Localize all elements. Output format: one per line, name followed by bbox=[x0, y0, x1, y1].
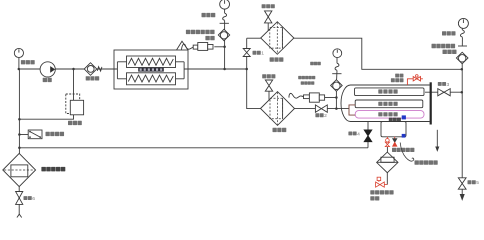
node junction bbox=[223, 68, 226, 71]
wire outlet sensor column upper bbox=[461, 28, 463, 30]
suction filter F1 吸油过滤器 bbox=[3, 153, 36, 186]
label 收集器 2 bbox=[273, 128, 287, 132]
label 球阀2 bbox=[315, 113, 327, 119]
collector 2 收集器 bbox=[261, 92, 295, 126]
heater label selected (dark highlight) bbox=[138, 68, 164, 72]
label 压力表 bbox=[202, 13, 216, 17]
wire sump drain to separator bbox=[386, 147, 388, 152]
leader curve to interface meter label bbox=[400, 143, 414, 162]
air vent valve 排气阀 (collector 1) bbox=[265, 11, 272, 17]
ball valve Q1 球阀1 bbox=[243, 49, 250, 53]
label 聚结滤芯 lower bbox=[378, 112, 397, 116]
svg-text:5: 5 bbox=[476, 180, 479, 186]
node junction bbox=[245, 68, 248, 71]
label 磁阀 bbox=[370, 196, 379, 200]
transducer nub U2 bbox=[319, 95, 324, 100]
ball valve Q3 球阀3 bbox=[438, 89, 444, 96]
auto drain valve (red, with float) bbox=[386, 137, 388, 139]
wire collector-pressure column bbox=[224, 20, 226, 69]
filter element 聚结滤芯 upper bbox=[355, 100, 423, 108]
svg-text:1: 1 bbox=[261, 51, 264, 57]
label 排气阀 1 bbox=[262, 4, 275, 8]
node junction bbox=[72, 68, 75, 71]
transducer nub U1 bbox=[208, 45, 213, 50]
label 排气阀 auto bbox=[391, 78, 404, 82]
wire vacuum gauge stem bbox=[18, 57, 20, 69]
wire vent into collector 2 bbox=[268, 91, 270, 100]
label 油水介面仪 bbox=[415, 160, 438, 164]
pressure gauge G3 压力表 bbox=[458, 18, 468, 28]
heater internal bus right bbox=[183, 62, 185, 79]
tick mark sensor 2 bbox=[332, 73, 341, 75]
node junction bbox=[335, 107, 338, 110]
relief valve body 溢流阀 bbox=[70, 100, 83, 115]
vacuum gauge B1 bbox=[14, 48, 23, 57]
filter element 聚结滤芯 selected (magenta) bbox=[355, 111, 424, 119]
wire outlet sensor column mid bbox=[461, 37, 463, 46]
wire bottom return line bbox=[19, 147, 368, 149]
arrow suction inlet open bbox=[17, 214, 22, 217]
label 出油口压力 bbox=[432, 44, 456, 48]
squiggle on line after check valve bbox=[97, 67, 102, 71]
connector U1 bbox=[193, 45, 198, 49]
heater enclosure E1 bbox=[114, 50, 188, 89]
ball valve Q2 球阀2 bbox=[315, 105, 321, 112]
gauge spring G1 bbox=[223, 13, 227, 20]
label 分离滤芯 bbox=[378, 89, 397, 93]
relief valve pilot box dashed bbox=[66, 94, 80, 114]
label 吸油过滤器 bbox=[41, 167, 65, 172]
wire vessel inlet line bbox=[295, 108, 350, 110]
label 压力表 3 bbox=[442, 31, 456, 35]
node junction bbox=[18, 68, 21, 71]
gauge spring G2 bbox=[335, 63, 339, 70]
automatic air vent (red) 自动排气阀 bbox=[407, 79, 423, 85]
wire water drain stub bbox=[436, 130, 438, 148]
svg-text:4: 4 bbox=[357, 131, 360, 137]
pressure switch S1 负压开关 bbox=[28, 130, 42, 139]
label 力传感器 bbox=[301, 81, 315, 84]
wire vessel drain riser bbox=[367, 122, 369, 148]
pressure gauge G2 压力表 bbox=[333, 49, 342, 58]
ball valve Q4 球阀4 (closed/filled) bbox=[364, 130, 372, 136]
label 自动排水电 bbox=[370, 190, 393, 194]
water sump 储水罐 bbox=[381, 122, 406, 137]
node junction bbox=[18, 133, 21, 136]
connector U2 bbox=[304, 95, 310, 99]
arrow outlet down filled bbox=[460, 195, 464, 200]
label 溢流阀 bbox=[68, 121, 82, 125]
svg-text:6: 6 bbox=[32, 196, 35, 202]
check valve V0 bbox=[84, 63, 97, 76]
node junction bbox=[18, 118, 21, 121]
label 球阀6 bbox=[24, 196, 36, 202]
heating element R2 bbox=[127, 73, 176, 85]
label 收集器 1 bbox=[270, 57, 284, 61]
label 油泵 bbox=[43, 78, 52, 82]
label 手动排水阀 bbox=[392, 148, 414, 152]
node junction bbox=[461, 68, 464, 71]
wire relief valve drain bbox=[19, 115, 73, 119]
vent peak on heater top bbox=[177, 41, 189, 50]
label 球阀1 bbox=[253, 51, 265, 57]
wire sensor column 2 upper bbox=[336, 58, 338, 64]
wire tap to pressure switch bbox=[19, 134, 28, 136]
tick mark sensor 1 bbox=[220, 22, 229, 24]
svg-text:3: 3 bbox=[447, 82, 450, 88]
ball valve Q5 球阀5 bbox=[458, 178, 466, 184]
gauge spring G3 bbox=[460, 30, 464, 37]
transducer body U1 bbox=[198, 43, 208, 51]
label 聚结滤芯 upper bbox=[378, 102, 397, 106]
label 负压开关 bbox=[46, 132, 65, 136]
label 排气阀 2 bbox=[262, 74, 275, 78]
manual drain valve 手动排水阀 (red) bbox=[394, 137, 396, 139]
wire vent into collector 1 bbox=[267, 23, 269, 31]
label 聚结分离压 bbox=[298, 76, 315, 79]
transducer body U2 bbox=[309, 93, 319, 102]
wire outlet column bbox=[461, 52, 463, 195]
air vent valve 排气阀 (collector 2) bbox=[265, 80, 272, 86]
label 储水罐 bbox=[389, 118, 401, 122]
node junction bbox=[461, 91, 464, 94]
wire sensor U1 tap bbox=[214, 46, 224, 48]
label 自动 bbox=[395, 74, 403, 78]
sensor cable squiggle U1 bbox=[182, 44, 194, 50]
label 传感器 bbox=[443, 50, 457, 54]
collector 1 收集器 bbox=[261, 22, 294, 55]
label 压力表 2 bbox=[310, 62, 321, 65]
node junction bbox=[223, 46, 226, 49]
sensor cable squiggle U2 bbox=[289, 93, 304, 98]
label 感器 bbox=[205, 36, 214, 40]
maroon jumper between elements bbox=[349, 105, 355, 115]
wire left column bbox=[18, 69, 20, 154]
wire vessel outlet line bbox=[425, 91, 462, 93]
wire heater outlet line bbox=[184, 68, 247, 70]
label 球阀5 bbox=[468, 180, 480, 186]
ball valve Q6 球阀6 bbox=[16, 192, 23, 198]
wire collector-pressure column upper bbox=[224, 8, 226, 13]
wire separator to solenoid bbox=[386, 173, 388, 185]
arrow water drain filled bbox=[436, 147, 439, 151]
tick mark sensor 3 bbox=[458, 45, 467, 47]
wire sensor column 2 mid bbox=[336, 70, 338, 79]
wire collector branch column bbox=[247, 38, 261, 108]
pressure sensor isolator D2 bbox=[331, 80, 343, 92]
auto drain solenoid valve (red) 自动排水电磁阀 bbox=[377, 177, 381, 180]
separator vessel T1 bbox=[341, 85, 430, 122]
node junction bbox=[335, 96, 338, 99]
pressure sensor isolator D1 bbox=[218, 29, 229, 40]
label 球阀4 bbox=[348, 131, 360, 137]
pressure gauge G1 压力表 bbox=[220, 0, 230, 9]
label 收集器压力传 bbox=[186, 30, 215, 34]
pressure sensor isolator D3 bbox=[456, 52, 468, 64]
oil pump P1 bbox=[40, 62, 55, 77]
svg-text:2: 2 bbox=[324, 113, 327, 119]
drain separator diamond bbox=[377, 152, 398, 173]
wire collector 1 outlet bypass bbox=[294, 38, 462, 69]
node junction bbox=[18, 147, 21, 150]
wire main suction line bbox=[19, 68, 118, 70]
wire collector 1 inlet bbox=[247, 37, 261, 39]
label 球阀3 bbox=[438, 82, 450, 88]
filter element 分离滤芯 bbox=[355, 88, 425, 96]
wire suction inlet stub bbox=[18, 187, 20, 215]
heater internal bus left bbox=[116, 62, 118, 79]
wire sensor column 2 lower bbox=[335, 80, 337, 109]
heating element R1 bbox=[127, 56, 176, 68]
label 单向阀 bbox=[86, 76, 100, 80]
label 真空表 bbox=[21, 60, 35, 64]
wire sensor U2 tap bbox=[326, 97, 336, 99]
interface sensor upper (blue) bbox=[402, 134, 406, 138]
wire branch down to relief valve bbox=[73, 69, 75, 100]
